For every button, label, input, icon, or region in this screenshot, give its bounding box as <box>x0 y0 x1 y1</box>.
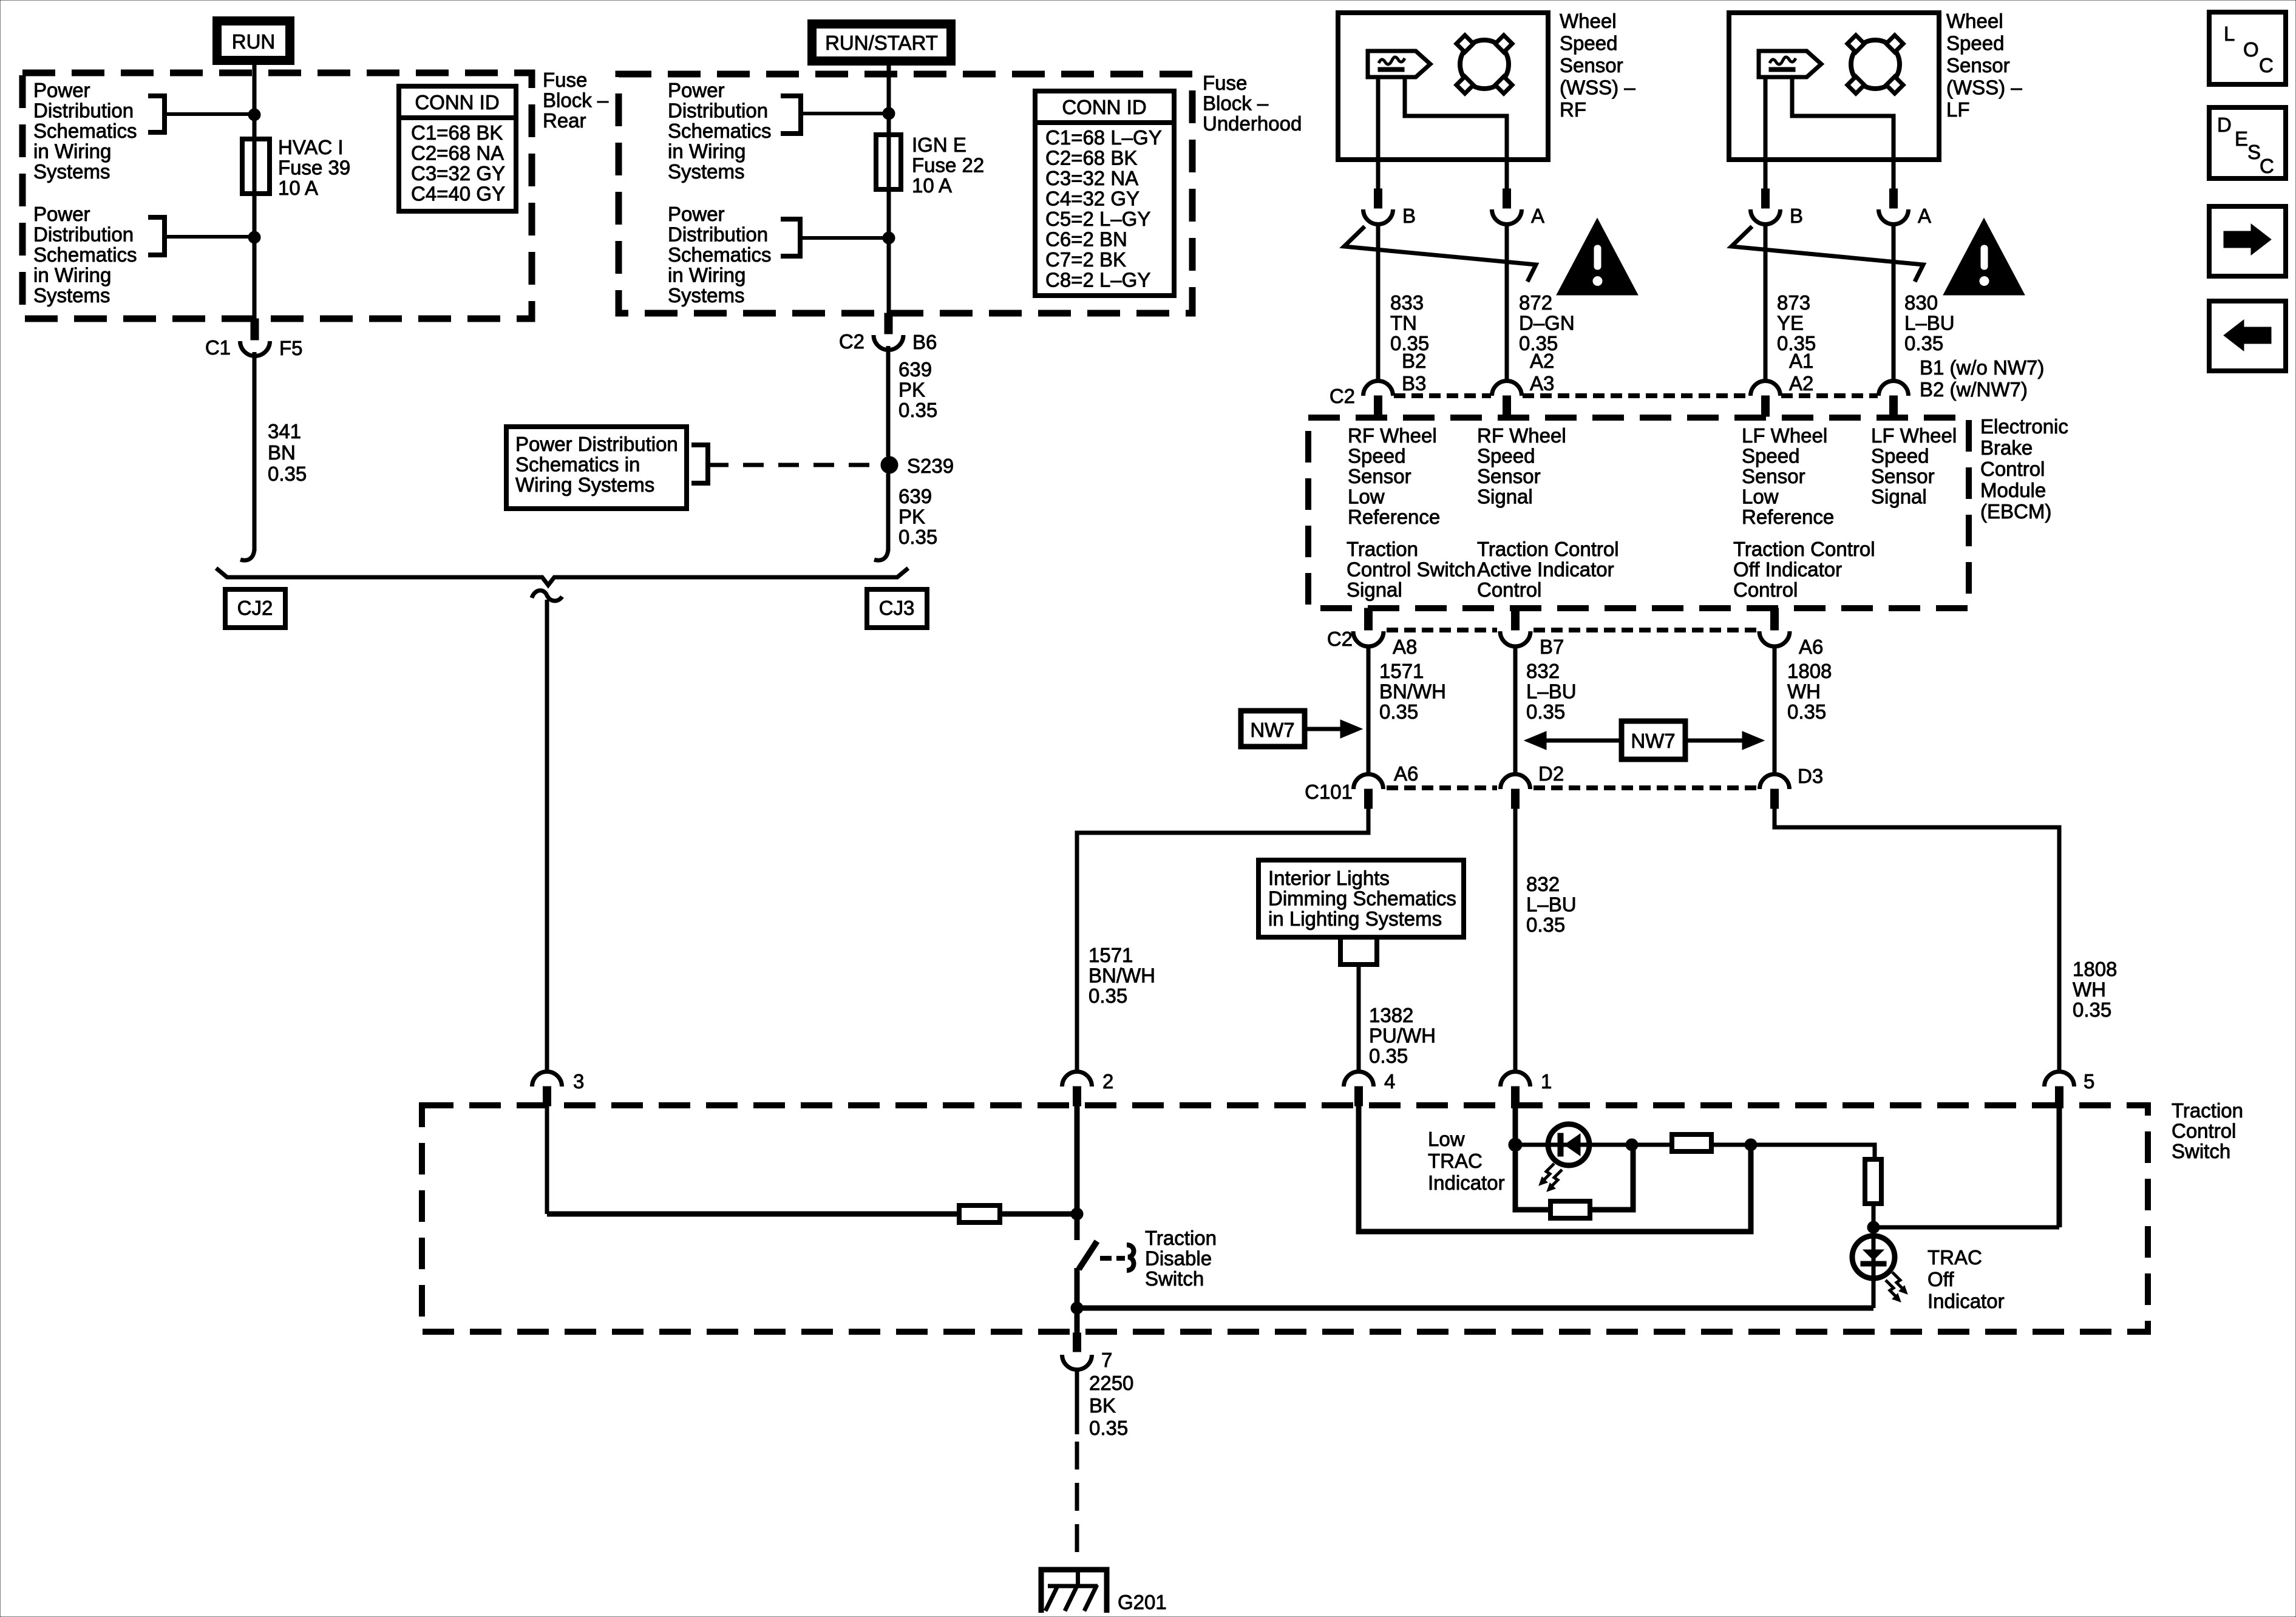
svg-text:1808: 1808 <box>2073 958 2117 980</box>
svg-text:D–GN: D–GN <box>1519 312 1575 334</box>
svg-text:Fuse 22: Fuse 22 <box>912 154 984 177</box>
svg-text:S239: S239 <box>907 455 954 477</box>
svg-text:873: 873 <box>1777 291 1810 314</box>
svg-text:C8=2 L–GY: C8=2 L–GY <box>1045 269 1150 291</box>
NW7 flag center double arrow <box>1622 721 1685 759</box>
svg-text:A: A <box>1918 205 1931 227</box>
conn id table underhood <box>1035 91 1174 296</box>
svg-text:1808: 1808 <box>1787 660 1832 682</box>
svg-text:5: 5 <box>2084 1070 2094 1093</box>
svg-text:CJ3: CJ3 <box>879 597 915 619</box>
fuse F22 IGN E <box>876 135 901 189</box>
svg-text:Traction: Traction <box>1145 1227 1217 1249</box>
wire 1571 seg2 <box>1077 808 1368 1071</box>
svg-text:IGN E: IGN E <box>912 134 966 156</box>
wire 639 PK upper <box>886 346 891 456</box>
svg-text:2: 2 <box>1102 1070 1113 1093</box>
svg-text:Control: Control <box>1477 578 1541 601</box>
svg-text:832: 832 <box>1526 660 1560 682</box>
svg-text:L–BU: L–BU <box>1526 893 1577 916</box>
svg-text:BN: BN <box>268 441 296 464</box>
svg-text:Distribution: Distribution <box>668 223 768 246</box>
svg-text:NW7: NW7 <box>1250 719 1294 741</box>
resistor R4 trac off <box>1865 1159 1881 1204</box>
svg-text:C1=68 BK: C1=68 BK <box>411 121 503 144</box>
wire R4 to dot4 <box>1872 1204 1876 1227</box>
svg-text:C2=68 NA: C2=68 NA <box>411 142 504 164</box>
wire dot3 to resistor R4 <box>1751 1145 1875 1159</box>
svg-text:Low: Low <box>1428 1128 1465 1150</box>
svg-text:Control: Control <box>1980 458 2045 480</box>
resistor R1 switch <box>959 1205 1000 1222</box>
connector C2 pin B6 <box>885 313 892 334</box>
svg-text:Speed: Speed <box>1348 445 1405 467</box>
svg-text:RUN/START: RUN/START <box>825 32 938 54</box>
svg-text:Schematics: Schematics <box>33 243 137 266</box>
node junction dot 2 (fuse block rear) <box>248 231 260 243</box>
wire blade to node B <box>1075 1268 1080 1308</box>
svg-text:Fuse: Fuse <box>543 69 587 91</box>
svg-text:Distribution: Distribution <box>33 100 134 122</box>
svg-text:A6: A6 <box>1394 762 1418 785</box>
svg-text:LF: LF <box>1946 98 1970 121</box>
svg-text:Signal: Signal <box>1477 486 1533 508</box>
svg-text:Signal: Signal <box>1871 486 1927 508</box>
harness slash mark LF <box>1731 226 1923 282</box>
svg-text:PK: PK <box>898 506 925 528</box>
svg-text:A8: A8 <box>1393 636 1417 658</box>
svg-text:S: S <box>2247 141 2261 163</box>
label box CJ2 <box>225 589 285 628</box>
connector EBCM bottom row x2496 <box>1512 608 1520 630</box>
svg-text:B2: B2 <box>1402 350 1426 372</box>
svg-text:Indicator: Indicator <box>1428 1171 1505 1194</box>
svg-text:Fuse: Fuse <box>1203 72 1247 94</box>
svg-text:Speed: Speed <box>1946 32 2004 55</box>
svg-text:7: 7 <box>1101 1349 1112 1371</box>
wire 2250 BK <box>1075 1368 1079 1434</box>
wire 1808 seg2 <box>1775 808 2059 1071</box>
svg-text:Distribution: Distribution <box>33 223 134 246</box>
wire RUN ignition feed <box>253 65 257 320</box>
wire RUN/START ignition feed <box>887 66 891 314</box>
svg-text:3: 3 <box>573 1070 584 1093</box>
svg-text:WH: WH <box>2073 978 2106 1001</box>
splice S239 <box>881 456 898 473</box>
svg-text:Block –: Block – <box>543 89 609 112</box>
wire 639 PK lower <box>886 473 891 551</box>
svg-text:Power: Power <box>33 203 90 225</box>
svg-text:B6: B6 <box>912 331 937 353</box>
svg-text:E: E <box>2235 127 2248 150</box>
wire pin3 to resistor <box>547 1212 959 1217</box>
svg-text:(WSS) –: (WSS) – <box>1560 76 1635 99</box>
fuse F39 HVAC I <box>242 139 270 194</box>
connector switch pin 3 <box>532 1072 562 1087</box>
connector switch pin 1 <box>1501 1072 1530 1087</box>
svg-text:LF Wheel: LF Wheel <box>1742 424 1827 447</box>
nav box arrow left <box>2209 301 2286 371</box>
svg-text:341: 341 <box>268 420 301 442</box>
svg-text:Power: Power <box>668 79 725 101</box>
EBCM dashed box <box>1308 418 1969 608</box>
svg-text:C1=68 L–GY: C1=68 L–GY <box>1045 126 1162 149</box>
svg-text:Traction: Traction <box>2172 1099 2243 1122</box>
connector EBCM top row x2482 <box>1492 381 1522 396</box>
node junction dot 4 (fuse block underhood) <box>883 232 895 244</box>
svg-text:Switch: Switch <box>1145 1267 1204 1290</box>
svg-text:A1: A1 <box>1789 350 1813 372</box>
connector WSS pin B at x2270 <box>1376 160 1381 189</box>
LED light arrows trac off <box>1892 1272 1904 1290</box>
svg-text:0.35: 0.35 <box>1369 1045 1408 1067</box>
ground G201 <box>1041 1570 1107 1613</box>
svg-text:1382: 1382 <box>1369 1004 1413 1026</box>
wire bracket2 to wire A <box>165 235 254 239</box>
connector C1 pin F5 <box>251 319 259 340</box>
svg-text:HVAC I: HVAC I <box>278 136 344 158</box>
svg-text:C3=32 NA: C3=32 NA <box>1045 167 1138 189</box>
svg-text:1571: 1571 <box>1089 944 1133 966</box>
svg-text:10 A: 10 A <box>912 174 952 197</box>
svg-text:872: 872 <box>1519 291 1552 314</box>
bracket tap 2 fuse block underhood <box>781 219 800 256</box>
svg-text:0.35: 0.35 <box>1089 1417 1128 1439</box>
wire dot4 to pin5 <box>1873 1225 2059 1230</box>
wire bracket to wire B <box>801 112 889 115</box>
svg-text:Fuse 39: Fuse 39 <box>278 157 350 179</box>
svg-text:YE: YE <box>1777 312 1804 334</box>
harness slash mark RF <box>1344 226 1536 282</box>
connector EBCM bottom row x2254 <box>1365 608 1373 630</box>
svg-text:PU/WH: PU/WH <box>1369 1025 1436 1047</box>
svg-text:A2: A2 <box>1530 350 1554 372</box>
fuse block rear dashed box <box>22 73 532 319</box>
svg-text:Active Indicator: Active Indicator <box>1477 558 1614 581</box>
svg-text:WH: WH <box>1787 680 1821 703</box>
svg-text:Disable: Disable <box>1145 1247 1212 1270</box>
svg-text:Speed: Speed <box>1477 445 1535 467</box>
svg-text:D3: D3 <box>1798 765 1823 787</box>
wire 832 seg2 <box>1513 808 1518 1071</box>
wire bus to pin 3 <box>545 600 549 1071</box>
connector EBCM top row x3119 <box>1879 381 1909 396</box>
svg-text:Traction Control: Traction Control <box>1477 538 1619 560</box>
bracket below interior lights <box>1340 940 1377 964</box>
wire bracket1 to wire A <box>165 112 254 116</box>
bus center squiggle <box>532 591 562 601</box>
node dot4 trac off <box>1867 1221 1880 1233</box>
wire pin5 lower <box>2057 1106 2062 1227</box>
svg-text:Reference: Reference <box>1742 506 1834 528</box>
wire resistor to node A <box>1000 1212 1077 1217</box>
svg-text:in Wiring: in Wiring <box>668 140 746 163</box>
svg-text:C6=2 BN: C6=2 BN <box>1045 228 1127 251</box>
wire node B to TRAC off LED <box>1077 1306 1873 1311</box>
svg-text:Wheel: Wheel <box>1946 10 2003 32</box>
wire WSS x2270 to EBCM <box>1376 224 1381 381</box>
svg-text:639: 639 <box>898 485 932 507</box>
svg-text:in Lighting Systems: in Lighting Systems <box>1268 907 1442 930</box>
svg-text:C: C <box>2259 54 2274 76</box>
svg-text:Control Switch: Control Switch <box>1347 558 1476 581</box>
wire node B to pin 7 <box>1075 1308 1080 1333</box>
bus brace splice junction <box>216 568 908 585</box>
connector EBCM bottom row x2923 <box>1771 608 1779 630</box>
svg-text:Speed: Speed <box>1560 32 1617 55</box>
svg-text:0.35: 0.35 <box>1089 985 1127 1007</box>
svg-text:2250: 2250 <box>1089 1372 1133 1394</box>
svg-text:Switch: Switch <box>2172 1140 2230 1162</box>
connector switch pin 2 <box>1062 1072 1092 1087</box>
svg-text:Module: Module <box>1980 479 2046 501</box>
connector switch pin 5 <box>2045 1072 2074 1087</box>
svg-text:Systems: Systems <box>668 284 745 307</box>
svg-text:BK: BK <box>1089 1394 1116 1417</box>
svg-text:L–BU: L–BU <box>1526 680 1577 703</box>
dashed reference link to S239 <box>708 463 879 467</box>
svg-text:B: B <box>1790 205 1803 227</box>
svg-text:in Wiring: in Wiring <box>33 140 111 163</box>
svg-text:0.35: 0.35 <box>1526 914 1565 936</box>
svg-text:Power: Power <box>668 203 725 225</box>
svg-text:C2: C2 <box>839 330 864 353</box>
svg-text:Power: Power <box>33 79 90 101</box>
svg-text:A6: A6 <box>1799 636 1823 658</box>
svg-text:Off: Off <box>1927 1268 1954 1290</box>
fuse block underhood dashed box <box>619 74 1192 313</box>
svg-text:RF Wheel: RF Wheel <box>1348 424 1437 447</box>
wire node A to switch contact <box>1075 1214 1080 1240</box>
svg-text:Brake: Brake <box>1980 436 2033 459</box>
svg-text:Schematics: Schematics <box>668 243 772 266</box>
svg-text:G201: G201 <box>1118 1591 1167 1613</box>
warning triangle RF <box>1560 222 1635 293</box>
reference box power distribution schematics <box>506 427 687 509</box>
wire pin3 lower <box>545 1106 549 1214</box>
svg-text:TRAC: TRAC <box>1927 1246 1982 1269</box>
svg-text:Systems: Systems <box>33 284 110 307</box>
resistor R2 parallel <box>1515 1151 1550 1210</box>
wire pin1 lower <box>1513 1106 1518 1145</box>
LED trac off indicator <box>1852 1236 1895 1278</box>
connector WSS pin A at x2482 <box>1505 160 1509 189</box>
wire bracket to wire B lower <box>800 236 889 240</box>
wire 1571 seg1 <box>1367 645 1371 775</box>
svg-text:Sensor: Sensor <box>1477 465 1541 487</box>
svg-text:C1: C1 <box>205 336 231 359</box>
power label box RUN <box>217 21 290 61</box>
svg-text:B1 (w/o NW7): B1 (w/o NW7) <box>1920 356 2044 379</box>
connector WSS pin A at x3119 <box>1892 160 1896 189</box>
wire 1382 PU/WH <box>1357 964 1361 1071</box>
wire 341 BN <box>253 352 257 551</box>
svg-text:D: D <box>2217 114 2232 136</box>
connector switch pin 7 <box>1073 1333 1081 1352</box>
svg-text:Systems: Systems <box>668 160 745 183</box>
svg-text:L–BU: L–BU <box>1904 312 1955 334</box>
svg-text:833: 833 <box>1390 291 1424 314</box>
node dot1 low trac <box>1509 1138 1522 1151</box>
switch linkage dashes <box>1100 1256 1125 1261</box>
svg-text:RF Wheel: RF Wheel <box>1477 424 1566 447</box>
svg-text:Traction Control: Traction Control <box>1733 538 1875 560</box>
svg-text:0.35: 0.35 <box>1787 700 1826 723</box>
node A switch junction <box>1071 1208 1083 1220</box>
wire dot4 to LED2 <box>1872 1227 1876 1308</box>
svg-text:Indicator: Indicator <box>1927 1290 2005 1312</box>
traction control switch dashed box <box>422 1105 2148 1332</box>
svg-text:L: L <box>2224 22 2235 45</box>
wire 832 seg1 <box>1513 645 1518 775</box>
svg-text:0.35: 0.35 <box>2073 998 2111 1021</box>
svg-text:BN/WH: BN/WH <box>1089 964 1155 987</box>
node dot2 low trac <box>1626 1139 1638 1151</box>
svg-text:Sensor: Sensor <box>1560 54 1623 76</box>
svg-text:1571: 1571 <box>1379 660 1424 682</box>
svg-text:C2=68 BK: C2=68 BK <box>1045 147 1137 169</box>
svg-text:Low: Low <box>1348 486 1385 508</box>
wheel speed sensor LF box <box>1729 13 1939 160</box>
svg-text:Sensor: Sensor <box>1742 465 1805 487</box>
nav box LOC <box>2209 12 2286 84</box>
svg-text:830: 830 <box>1904 291 1938 314</box>
svg-text:TN: TN <box>1390 312 1417 334</box>
svg-text:O: O <box>2243 38 2259 61</box>
svg-text:Electronic: Electronic <box>1980 415 2068 438</box>
LED low trac indicator <box>1548 1124 1589 1165</box>
dotted connector row EBCM top <box>1394 393 1491 398</box>
svg-text:C2: C2 <box>1330 385 1355 407</box>
svg-text:Reference: Reference <box>1348 506 1440 528</box>
svg-text:A: A <box>1531 205 1544 227</box>
svg-text:Off Indicator: Off Indicator <box>1733 558 1842 581</box>
bracket tap 1 fuse block rear <box>148 96 165 132</box>
svg-text:Sensor: Sensor <box>1871 465 1935 487</box>
svg-text:B: B <box>1402 205 1416 227</box>
wire LED row <box>1515 1143 1672 1147</box>
svg-text:(EBCM): (EBCM) <box>1980 500 2051 523</box>
svg-text:B2 (w/NW7): B2 (w/NW7) <box>1920 378 2028 401</box>
svg-text:A2: A2 <box>1789 372 1813 395</box>
conn id table rear <box>399 86 516 211</box>
reference box interior lights <box>1258 860 1464 937</box>
connector WSS pin B at x2908 <box>1764 160 1768 189</box>
svg-text:B3: B3 <box>1402 372 1426 395</box>
svg-text:Speed: Speed <box>1742 445 1799 467</box>
svg-text:RUN: RUN <box>232 30 276 53</box>
svg-text:Traction: Traction <box>1347 538 1418 560</box>
svg-text:Low: Low <box>1742 486 1779 508</box>
svg-text:LF Wheel: LF Wheel <box>1871 424 1957 447</box>
svg-text:TRAC: TRAC <box>1428 1150 1483 1172</box>
svg-text:4: 4 <box>1384 1070 1395 1093</box>
svg-text:0.35: 0.35 <box>898 399 937 421</box>
svg-text:0.35: 0.35 <box>1526 700 1565 723</box>
svg-text:639: 639 <box>898 358 932 381</box>
svg-text:D2: D2 <box>1538 762 1564 785</box>
svg-text:in Wiring: in Wiring <box>33 264 111 286</box>
NW7 flag left <box>1241 711 1305 747</box>
svg-text:Sensor: Sensor <box>1348 465 1411 487</box>
svg-text:in Wiring: in Wiring <box>668 264 746 286</box>
svg-text:Rear: Rear <box>543 109 586 132</box>
svg-text:CONN ID: CONN ID <box>1062 96 1146 118</box>
svg-text:Schematics in: Schematics in <box>515 453 640 476</box>
svg-text:Power Distribution: Power Distribution <box>515 433 678 455</box>
wire 1808 seg1 <box>1773 645 1777 775</box>
connector switch pin 4 <box>1344 1072 1374 1087</box>
svg-text:Signal: Signal <box>1347 578 1402 601</box>
nav box arrow right <box>2209 206 2286 276</box>
svg-text:10 A: 10 A <box>278 177 318 199</box>
connector EBCM top row x2908 <box>1751 381 1781 396</box>
svg-text:A3: A3 <box>1530 372 1554 395</box>
warning triangle LF <box>1946 222 2022 293</box>
svg-text:C: C <box>2260 155 2274 177</box>
node junction dot 1 (fuse block rear) <box>248 109 260 121</box>
svg-text:C101: C101 <box>1305 781 1353 803</box>
svg-text:832: 832 <box>1526 873 1560 895</box>
wire WSS x2482 to EBCM <box>1505 224 1509 381</box>
wire WSS x2908 to EBCM <box>1764 224 1768 381</box>
connector EBCM top row x2270 <box>1364 381 1393 396</box>
svg-text:PK: PK <box>898 379 925 401</box>
nav box DESC <box>2209 107 2286 178</box>
svg-text:C2: C2 <box>1327 628 1353 650</box>
svg-text:C4=32 GY: C4=32 GY <box>1045 188 1140 210</box>
dotted connector row C2 <box>1387 628 1497 632</box>
wheel speed sensor RF box <box>1338 13 1548 160</box>
dashed wire to ground <box>1075 1442 1079 1558</box>
svg-text:Control: Control <box>2172 1120 2236 1142</box>
svg-text:Interior Lights: Interior Lights <box>1268 867 1390 889</box>
svg-text:0.35: 0.35 <box>1379 700 1418 723</box>
node dot3 low trac <box>1745 1139 1757 1151</box>
svg-text:Schematics: Schematics <box>668 120 772 142</box>
label box CJ3 <box>867 589 927 628</box>
svg-text:CJ2: CJ2 <box>237 597 273 619</box>
svg-text:BN/WH: BN/WH <box>1379 680 1446 703</box>
resistor R3 series <box>1670 1143 1674 1147</box>
LED light arrows low trac <box>1542 1164 1554 1182</box>
wire WSS x3119 to EBCM <box>1892 224 1896 381</box>
bracket tap S239 reference <box>691 445 708 483</box>
svg-text:Systems: Systems <box>33 160 110 183</box>
svg-text:Speed: Speed <box>1871 445 1929 467</box>
svg-text:0.35: 0.35 <box>898 526 937 548</box>
svg-text:Underhood: Underhood <box>1203 112 1302 135</box>
node junction dot 3 (fuse block underhood) <box>883 107 895 120</box>
svg-text:Wheel: Wheel <box>1560 10 1617 32</box>
switch linkage curl <box>1127 1245 1134 1270</box>
svg-text:(WSS) –: (WSS) – <box>1946 76 2022 99</box>
svg-text:Block –: Block – <box>1203 92 1269 115</box>
svg-text:Wiring Systems: Wiring Systems <box>515 473 654 496</box>
svg-text:Schematics: Schematics <box>33 120 137 142</box>
svg-text:C7=2 BK: C7=2 BK <box>1045 248 1126 271</box>
svg-text:CONN ID: CONN ID <box>415 91 499 114</box>
svg-text:F5: F5 <box>279 337 303 359</box>
connector C101 row <box>1365 789 1373 808</box>
power label box RUN/START <box>812 24 951 61</box>
svg-text:0.35: 0.35 <box>1904 332 1943 354</box>
svg-text:NW7: NW7 <box>1631 730 1675 752</box>
svg-text:C5=2 L–GY: C5=2 L–GY <box>1045 208 1150 230</box>
svg-text:0.35: 0.35 <box>268 463 307 485</box>
svg-text:Dimming Schematics: Dimming Schematics <box>1268 887 1456 910</box>
svg-text:C4=40 GY: C4=40 GY <box>411 183 505 205</box>
